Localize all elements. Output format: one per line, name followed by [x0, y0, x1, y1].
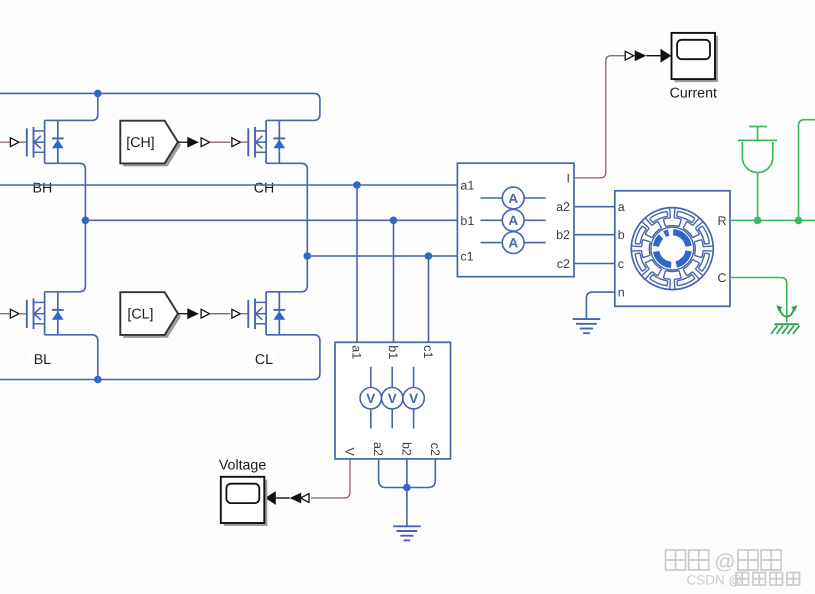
input port arrow at Current scope [661, 49, 672, 63]
scope Current [675, 36, 719, 82]
svg-text:a: a [618, 200, 625, 214]
block BLDC motor [615, 191, 730, 306]
wire b2 to motor b [574, 234, 615, 236]
voltmeter V2 inside voltage sensor [391, 367, 393, 388]
inertia block (flywheel icon) [749, 126, 767, 128]
from tag [CL] [123, 295, 181, 338]
svg-text:c1: c1 [421, 345, 435, 358]
wire motor n to ground [586, 292, 614, 319]
svg-text:CL: CL [255, 352, 273, 368]
transistor BL (MOSFET with body diode) [26, 300, 28, 328]
svg-text:Voltage: Voltage [219, 457, 266, 473]
wire mechanical branch to off-screen top right [799, 120, 815, 221]
output port arrow (hollow) on I signal [625, 51, 634, 60]
wire BL gate lead [19, 313, 27, 315]
output port arrow (filled) on I signal [635, 50, 647, 61]
mechanical rotational reference (ground) [780, 309, 794, 317]
svg-text:c: c [618, 257, 624, 271]
node junction on bottom bus below BL [94, 376, 102, 384]
svg-text:[CL]: [CL] [127, 307, 153, 323]
wire CH source down to phase C node [266, 163, 307, 256]
wire CL gate lead [240, 313, 248, 315]
motor stator and rotor icon [631, 208, 713, 290]
wire inertia to R net [757, 173, 759, 221]
wire BH source down to phase B node [45, 163, 86, 220]
wire BL source down to bottom bus [45, 335, 98, 380]
svg-text:[CH]: [CH] [126, 135, 154, 151]
output port arrow (hollow) after [CL] [201, 309, 210, 318]
wire gate input line to BH (from off-screen) [0, 141, 11, 143]
ground (electrical) at star point [393, 525, 421, 527]
voltmeter V3 inside voltage sensor [413, 367, 415, 388]
svg-text:b1: b1 [460, 214, 474, 228]
scope Voltage [224, 480, 267, 526]
output port arrow (hollow) on V signal [301, 494, 310, 503]
svg-text:CH: CH [254, 181, 275, 197]
svg-text:V: V [388, 391, 397, 406]
node junction on phase b line [390, 217, 398, 225]
node junction mechanical at inertia [754, 217, 762, 225]
svg-text:I: I [567, 171, 570, 185]
svg-text:a2: a2 [556, 200, 570, 214]
svg-text:V: V [409, 391, 418, 406]
ammeter A3 inside current sensor [481, 242, 503, 244]
wire BH gate lead [19, 141, 27, 143]
svg-text:a1: a1 [350, 345, 364, 359]
wire BL drain from phase B node [45, 220, 86, 291]
svg-text:c2: c2 [557, 257, 570, 271]
watermark zhihu [666, 550, 686, 570]
node junction mechanical at right [795, 217, 803, 225]
svg-text:A: A [508, 235, 518, 250]
svg-text:c1: c1 [460, 250, 473, 264]
wire current measurement output I to scope [574, 56, 625, 178]
wire phase a line (a1) [0, 184, 457, 186]
svg-text:b2: b2 [399, 442, 413, 456]
block voltage measurement (3-phase voltage sensor) [335, 342, 451, 459]
svg-text:R: R [717, 214, 726, 228]
svg-text:c2: c2 [428, 443, 442, 456]
ammeter A1 inside current sensor [481, 197, 503, 199]
output port arrow (hollow) after [CH] [201, 138, 210, 147]
wire voltage sensor b2 to star point [406, 459, 408, 488]
output port arrow (filled) on V signal [290, 493, 302, 504]
wire CL drain from phase C node [266, 256, 307, 292]
wire motor R to mechanical net [730, 219, 815, 221]
output port arrow (filled) after [CL] [187, 308, 199, 319]
node junction on phase b node [82, 217, 90, 225]
transistor BH (MOSFET with body diode) [26, 128, 28, 156]
from tag [CH] [123, 124, 181, 167]
svg-text:C: C [717, 271, 726, 285]
wire into Voltage scope [276, 497, 290, 499]
label CH [251, 180, 276, 194]
wire [CH] signal to CH gate [210, 141, 231, 143]
svg-text:CSDN @: CSDN @ [687, 573, 743, 588]
svg-text:BH: BH [33, 181, 53, 197]
label BH [30, 180, 55, 194]
svg-text:b2: b2 [556, 228, 570, 242]
wire phase b line (b1) [85, 219, 457, 221]
svg-text:V: V [343, 448, 357, 457]
block current measurement (3-phase current sensor) [457, 163, 574, 277]
input port arrow at CH gate [232, 138, 241, 147]
wire tap phase a down to voltage sensor [356, 185, 358, 342]
svg-text:BL: BL [34, 352, 51, 368]
label CL [251, 352, 276, 366]
wire star point to ground [406, 488, 408, 527]
node junction on phase c node [304, 252, 312, 260]
svg-text:@: @ [714, 551, 735, 574]
wire BH drain branch from top bus [45, 93, 98, 120]
input port arrow at BH gate [10, 138, 19, 147]
wire c2 to motor c [574, 263, 615, 265]
transistor CH (MOSFET with body diode) [247, 128, 249, 156]
svg-text:b1: b1 [386, 345, 400, 359]
svg-text:b: b [618, 228, 625, 242]
wire top DC bus (+) from left edge to CH drain elbow [0, 93, 320, 120]
wire [CL] signal to CL gate [210, 313, 231, 315]
svg-text:a2: a2 [371, 442, 385, 456]
wire a2 to motor a [574, 206, 615, 208]
wire voltage sensor a2 to star point [379, 459, 407, 488]
wire tap phase b down to voltage sensor [393, 220, 395, 342]
wire voltage sensor c2 to star point [407, 459, 435, 488]
wire motor C to rotational reference [730, 278, 787, 323]
svg-text:V: V [366, 391, 375, 406]
node junction on top bus above BH [94, 90, 102, 98]
ground (electrical) at motor neutral [573, 318, 601, 320]
wire gate input line to BL (from off-screen) [0, 313, 11, 315]
svg-text:Current: Current [670, 85, 717, 101]
node junction on phase c line [425, 252, 433, 260]
svg-text:a1: a1 [460, 179, 474, 193]
wire CH gate lead [240, 141, 248, 143]
node junction on phase a line [353, 181, 361, 189]
svg-text:A: A [508, 213, 518, 228]
wire phase c line (c1) [307, 255, 457, 257]
voltmeter V1 inside voltage sensor [370, 367, 372, 388]
input port arrow at Voltage scope [265, 491, 276, 505]
input port arrow at CL gate [232, 309, 241, 318]
transistor CL (MOSFET with body diode) [247, 300, 249, 328]
wire from [CH] tip to port arrow [178, 141, 188, 143]
input port arrow at BL gate [10, 309, 19, 318]
wire tap phase c down to voltage sensor [428, 256, 430, 342]
svg-text:n: n [618, 286, 625, 300]
wire voltage measurement output V to scope [311, 459, 350, 498]
ammeter A2 inside current sensor [481, 219, 503, 221]
wire into Current scope [646, 55, 661, 57]
output port arrow (filled) after [CH] [187, 137, 199, 148]
node junction star point [403, 484, 411, 492]
wire from [CL] tip to port arrow [178, 313, 188, 315]
wire bottom DC bus (-) from left edge up to CL source [0, 335, 320, 380]
svg-text:A: A [508, 191, 518, 206]
label BL [30, 352, 55, 366]
